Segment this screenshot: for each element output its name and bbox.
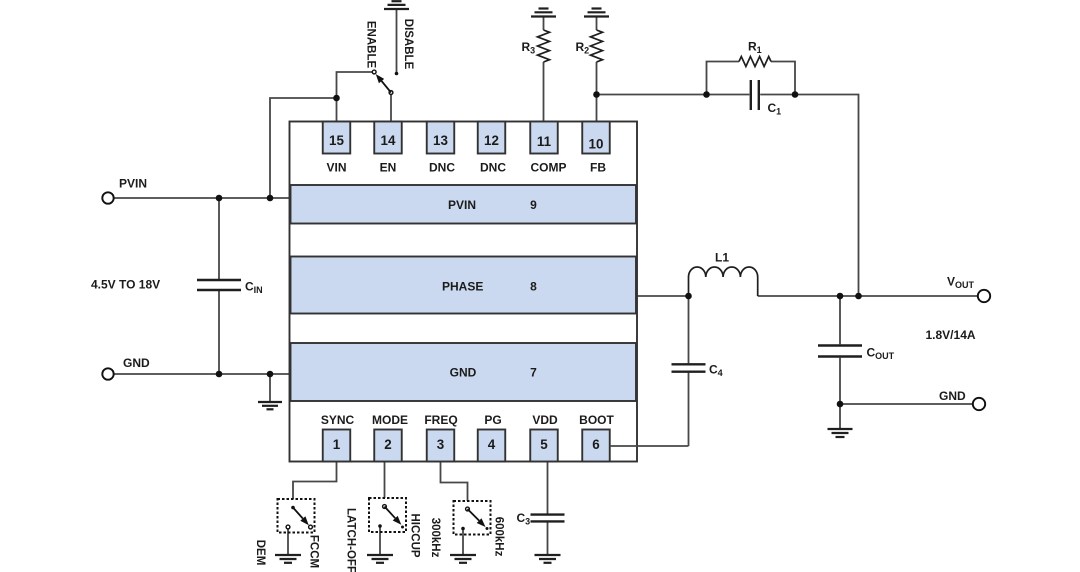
svg-text:MODE: MODE (372, 413, 408, 427)
svg-text:9: 9 (530, 198, 537, 212)
svg-text:GND: GND (450, 366, 477, 380)
svg-text:LATCH-OFF: LATCH-OFF (345, 508, 357, 572)
svg-text:SYNC: SYNC (321, 413, 355, 427)
svg-text:3: 3 (437, 437, 444, 452)
svg-text:8: 8 (530, 280, 537, 294)
svg-text:2: 2 (384, 437, 391, 452)
svg-text:1.8V/14A: 1.8V/14A (926, 328, 976, 342)
svg-text:15: 15 (329, 133, 344, 148)
svg-text:GND: GND (123, 356, 150, 370)
svg-text:PHASE: PHASE (442, 280, 483, 294)
svg-text:13: 13 (433, 133, 448, 148)
svg-text:GND: GND (939, 389, 966, 403)
svg-text:600kHz: 600kHz (493, 517, 505, 557)
svg-text:11: 11 (537, 134, 552, 149)
svg-text:HICCUP: HICCUP (409, 513, 421, 557)
svg-text:DNC: DNC (480, 161, 506, 175)
svg-text:12: 12 (484, 133, 499, 148)
svg-text:4.5V TO 18V: 4.5V TO 18V (91, 278, 160, 292)
svg-text:1: 1 (333, 437, 341, 452)
svg-text:FCCM: FCCM (308, 535, 320, 568)
svg-text:EN: EN (380, 161, 397, 175)
svg-text:DEM: DEM (254, 540, 266, 566)
svg-text:300kHz: 300kHz (429, 518, 441, 558)
svg-text:5: 5 (540, 437, 548, 452)
svg-text:DNC: DNC (429, 161, 455, 175)
svg-text:PVIN: PVIN (448, 198, 476, 212)
svg-text:DISABLE: DISABLE (402, 19, 414, 70)
svg-text:VIN: VIN (326, 161, 346, 175)
svg-text:COMP: COMP (531, 161, 567, 175)
svg-text:10: 10 (589, 137, 604, 152)
svg-text:VDD: VDD (532, 413, 558, 427)
svg-text:PG: PG (484, 413, 501, 427)
svg-text:BOOT: BOOT (579, 413, 614, 427)
svg-text:6: 6 (592, 437, 599, 452)
svg-text:ENABLE: ENABLE (365, 21, 377, 69)
svg-text:PVIN: PVIN (119, 177, 147, 191)
svg-text:4: 4 (488, 437, 496, 452)
svg-text:FB: FB (590, 161, 606, 175)
svg-text:FREQ: FREQ (424, 413, 457, 427)
svg-text:14: 14 (381, 133, 396, 148)
svg-text:7: 7 (530, 366, 537, 380)
svg-text:L1: L1 (715, 251, 729, 265)
